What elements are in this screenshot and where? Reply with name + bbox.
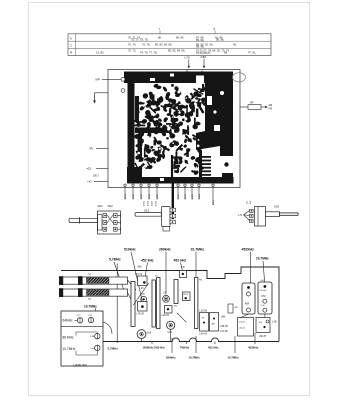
svg-text:95, 96,: 95, 96, — [216, 38, 224, 42]
svg-text:64MHz: 64MHz — [63, 319, 74, 323]
label 1630kHz/1450kHz — [143, 342, 166, 350]
svg-text:5,7MHz: 5,7MHz — [108, 346, 119, 350]
svg-text:80, 82, 84, 86,: 80, 82, 84, 86, — [168, 49, 185, 53]
svg-text:•(D): •(D) — [87, 166, 92, 170]
component variant table — [68, 27, 271, 56]
svg-text:MP: MP — [96, 78, 100, 82]
pin labels above switch S12 — [144, 200, 158, 206]
down arrow marker — [93, 89, 125, 104]
svg-text:L40-43: L40-43 — [200, 333, 208, 336]
label 260kHz — [159, 248, 171, 295]
svg-text:10,7MHz: 10,7MHz — [189, 355, 201, 359]
label 10,7MHz top right — [191, 248, 205, 277]
coil L70 callout arrow — [185, 56, 191, 73]
labels C48-4B L44-4B — [220, 326, 228, 333]
svg-text:4002: 4002 — [133, 193, 135, 199]
coil box C40-45 — [238, 318, 254, 337]
label 5,7MHz top — [109, 258, 124, 292]
PCB board outline — [108, 70, 240, 188]
S03 pin labels — [247, 200, 253, 204]
svg-text:L4B: L4B — [272, 322, 277, 324]
svg-text:L4B: L4B — [221, 316, 226, 319]
resistor callout right of board — [240, 101, 273, 110]
capacitor C80 callout arrow — [200, 55, 207, 73]
svg-text:FM: FM — [269, 107, 273, 110]
filter strip 2 — [152, 280, 155, 327]
svg-text:S12: S12 — [144, 208, 150, 212]
svg-text:4011: 4011 — [178, 194, 180, 199]
svg-text:74, 76, 77, 78,: 74, 76, 77, 78, — [140, 51, 157, 55]
label 452kHz far right — [242, 248, 255, 286]
svg-text:4004: 4004 — [149, 193, 151, 199]
white circle marker top-right of board — [233, 73, 246, 82]
leader 5,7MHz vertical — [116, 264, 118, 344]
svg-text:99,: 99, — [233, 42, 237, 46]
filter strip 4 — [174, 280, 178, 308]
coil box L20-28 — [200, 310, 226, 336]
svg-text:4012: 4012 — [185, 193, 187, 199]
svg-text:4033: 4033 — [152, 200, 154, 206]
transistor T6 — [163, 295, 170, 302]
svg-text:88 MHz: 88 MHz — [63, 336, 74, 340]
svg-text:84, 85: 84, 85 — [176, 36, 184, 40]
svg-text:4001: 4001 — [125, 193, 127, 199]
switch S03 body and shaft — [255, 207, 299, 227]
coil box small right — [228, 304, 238, 313]
svg-text:L70: L70 — [185, 56, 190, 60]
switch S12 shaft — [135, 208, 162, 216]
svg-text:C80: C80 — [147, 331, 152, 334]
svg-text:75, 77, 78, 79,: 75, 77, 78, 79, — [131, 38, 148, 42]
label 260kHz row2 — [166, 338, 176, 359]
filter strip 1 — [131, 282, 135, 327]
svg-text:4005: 4005 — [157, 193, 159, 199]
svg-text:C48-4B: C48-4B — [220, 326, 228, 328]
ferrite rod antenna coil L1 — [59, 276, 128, 285]
svg-text:L50-57: L50-57 — [259, 335, 267, 338]
label MP with leader — [96, 77, 125, 81]
label 740kHz — [180, 342, 190, 350]
svg-text:4013: 4013 — [192, 193, 194, 199]
svg-text:10,7MHz: 10,7MHz — [63, 347, 76, 351]
svg-text:A,B: A,B — [181, 266, 185, 269]
coil BL58 — [183, 292, 191, 301]
svg-text:LS: LS — [239, 213, 243, 217]
svg-text:89, 90,: 89, 90, — [196, 38, 204, 42]
switch S03 label — [274, 205, 279, 209]
svg-text:4034: 4034 — [156, 200, 158, 206]
svg-text:b75-oM: b75-oM — [260, 290, 267, 292]
svg-text:1630kHz 1450 kHz: 1630kHz 1450 kHz — [143, 345, 166, 349]
svg-text:4021: 4021 — [213, 199, 215, 205]
IF module AM — [242, 283, 255, 314]
coil 4,9 — [180, 266, 187, 278]
switch S12 body — [162, 207, 176, 232]
coil L78-20 — [137, 302, 148, 316]
transistor T5 — [141, 296, 147, 302]
svg-text:510kHz: 510kHz — [124, 248, 136, 252]
svg-text:-C80: -C80 — [200, 55, 207, 59]
UKW tuner box — [61, 311, 103, 368]
chassis outline bottom edge with grommet bumps — [103, 338, 279, 342]
svg-text:08,: 08, — [224, 51, 228, 55]
label NO with leader — [88, 180, 109, 184]
svg-text:C40-45: C40-45 — [239, 322, 246, 324]
svg-text:L72-74: L72-74 — [135, 273, 143, 276]
capacitor C80 disc — [137, 330, 152, 342]
svg-text:806: 806 — [138, 266, 143, 269]
svg-text:15, 80: 15, 80 — [96, 50, 104, 54]
switch S01 S02 labels — [98, 204, 114, 208]
label 452kHz bottom mid — [208, 342, 219, 350]
label D with leader — [87, 166, 109, 170]
coil box 4R — [256, 318, 277, 339]
svg-text:452 kHz: 452 kHz — [141, 258, 154, 262]
switch S01/S02 shaft — [69, 217, 98, 223]
svg-text:UKW-Teil: UKW-Teil — [74, 364, 88, 368]
svg-text:MP: MP — [250, 101, 254, 104]
label 10,7MHz right — [256, 257, 269, 285]
svg-text:L78-20: L78-20 — [137, 313, 145, 316]
svg-text:L44-4B: L44-4B — [220, 331, 228, 333]
wire arc from UKW box — [103, 322, 112, 334]
leader lines mid — [133, 283, 186, 322]
filter strip 3 — [155, 276, 160, 329]
svg-text:260kHz: 260kHz — [159, 248, 171, 252]
label 5,7MHz bottom left — [108, 346, 119, 350]
svg-text:FM: FM — [199, 280, 202, 282]
svg-text:452kHz: 452kHz — [242, 248, 255, 252]
svg-text:10,7MHz: 10,7MHz — [191, 248, 205, 252]
board terminal pins — [124, 184, 215, 205]
svg-text:S03: S03 — [274, 205, 279, 209]
svg-text:452 kHz: 452 kHz — [174, 258, 187, 262]
label 10,7MHz row2 mid — [189, 336, 201, 359]
label 452kHz mid — [174, 258, 187, 269]
svg-text:80, 82, 84, 86,: 80, 82, 84, 86, — [155, 42, 172, 46]
svg-text:L28-29: L28-29 — [162, 314, 170, 317]
svg-text:452kHz: 452kHz — [248, 345, 259, 349]
filter strip 5 — [195, 278, 203, 329]
svg-text:4014: 4014 — [199, 193, 201, 199]
label 510kHz — [124, 248, 143, 304]
ferrite rod antenna coil L2 — [59, 288, 128, 297]
thick lead wire to switch S12 — [172, 183, 174, 219]
svg-text:10,7MHz: 10,7MHz — [256, 257, 269, 261]
label P with leader — [90, 147, 109, 151]
label C9 — [163, 291, 167, 294]
label 452kHz bottom right — [248, 333, 259, 349]
svg-text:4032: 4032 — [148, 200, 150, 206]
coil L28-29 — [162, 306, 173, 317]
svg-text:47, 91,: 47, 91, — [248, 51, 256, 55]
IF module FM — [258, 280, 272, 314]
node 806 label — [138, 266, 143, 269]
svg-text:452 kHz: 452 kHz — [208, 345, 219, 349]
PCB copper pattern — [124, 72, 234, 184]
svg-text:S02: S02 — [108, 204, 114, 208]
svg-text:C06: C06 — [167, 331, 172, 334]
label 10,7MHz row2 right — [228, 336, 240, 359]
svg-text:10,7MHz: 10,7MHz — [84, 305, 97, 309]
svg-text:76, 78,: 76, 78, — [142, 42, 150, 46]
svg-text:70, 74,: 70, 74, — [128, 42, 136, 46]
svg-text:S01: S01 — [98, 204, 104, 208]
rod connection wires — [128, 280, 137, 303]
svg-text:4031: 4031 — [144, 200, 146, 206]
label 452kHz left — [141, 258, 154, 276]
module connection wires — [240, 314, 265, 318]
svg-text:100.7: 100.7 — [93, 173, 100, 177]
svg-text:10,7MHz: 10,7MHz — [228, 355, 240, 359]
chassis outline top edge — [61, 267, 279, 341]
svg-text:Tr: Tr — [69, 36, 72, 40]
svg-text:4003: 4003 — [141, 193, 143, 199]
loudspeaker LS label and leads — [239, 209, 254, 222]
svg-text:740kHz: 740kHz — [180, 345, 190, 349]
svg-text:5,7MHz: 5,7MHz — [109, 258, 121, 262]
svg-text:FM: FM — [262, 294, 267, 298]
svg-text:AM: AM — [245, 301, 250, 305]
svg-text:80,: 80, — [158, 36, 162, 40]
svg-text:(P): (P) — [90, 147, 94, 151]
svg-text:70, 72,: 70, 72, — [128, 49, 136, 53]
label C5 — [142, 293, 146, 296]
svg-text:96, 98,: 96, 98, — [196, 45, 204, 49]
rod labels — [88, 274, 91, 302]
svg-text:AM: AM — [212, 323, 215, 326]
svg-text:L20-28: L20-28 — [200, 310, 208, 313]
svg-text:260kHz: 260kHz — [166, 355, 176, 359]
capacitor C06 disc — [167, 321, 175, 341]
svg-text:4R: 4R — [259, 322, 262, 324]
label 100.7 — [93, 173, 100, 177]
switch S01/S02 body — [98, 211, 121, 234]
svg-text:L44-50: L44-50 — [239, 328, 246, 330]
label 10,7MHz above UKW box — [84, 305, 97, 311]
coil L72-74 — [135, 273, 147, 290]
